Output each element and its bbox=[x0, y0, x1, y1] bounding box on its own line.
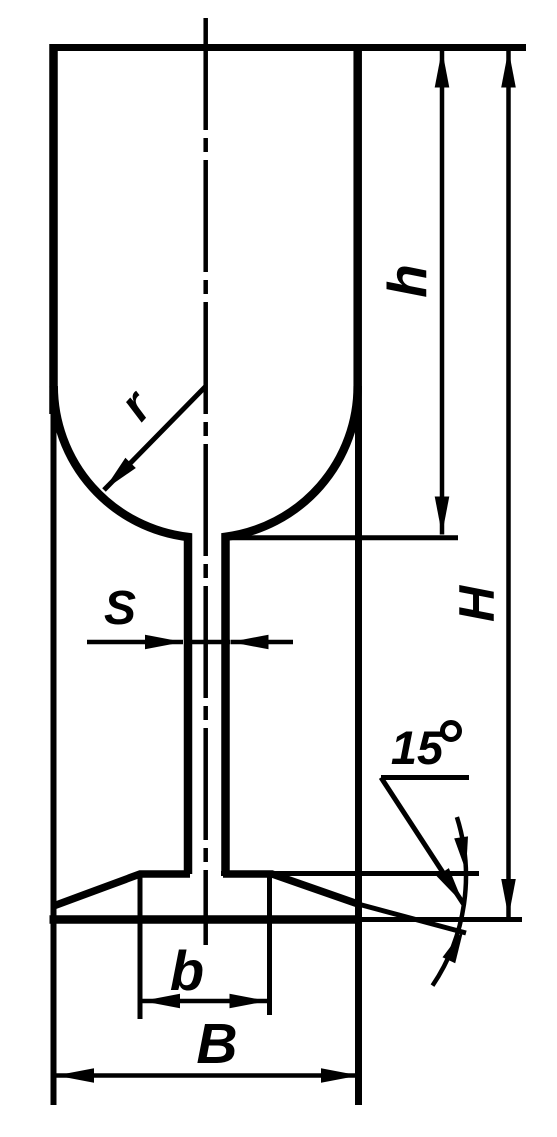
svg-text:15: 15 bbox=[391, 721, 444, 774]
leader from 15deg label with arrow bbox=[381, 778, 464, 905]
svg-text:B: B bbox=[196, 1012, 237, 1076]
degree circle of 15deg label bbox=[443, 723, 460, 740]
right extension line (B) below bowl bbox=[355, 410, 362, 1105]
foot bottom line (thick across foot) bbox=[50, 915, 363, 924]
bottom extension line to the right (for H and 15) bbox=[362, 917, 522, 922]
dimension b line with arrows bbox=[142, 999, 268, 1004]
b left extension line bbox=[138, 876, 143, 1019]
arc upper arrow (onto horizontal line) bbox=[454, 836, 468, 871]
svg-text:b: b bbox=[170, 939, 204, 1002]
dimension S line across stem bbox=[184, 640, 230, 645]
dimension B line with arrows bbox=[56, 1073, 359, 1078]
horizontal extension of foot hub plane (for 15deg angle) bbox=[221, 871, 479, 876]
svg-text:h: h bbox=[376, 264, 438, 298]
dimension S left line with arrow bbox=[87, 640, 183, 645]
bowl right arc into stem right edge bbox=[226, 386, 358, 874]
bowl left arc into stem left edge bbox=[54, 386, 188, 874]
dimension h line with arrows bbox=[440, 50, 445, 535]
svg-text:H: H bbox=[449, 585, 505, 622]
angular dimension arc bbox=[433, 817, 466, 986]
dimension S right line with arrow bbox=[231, 640, 294, 645]
foot hub right + right foot slope bbox=[223, 874, 358, 904]
dimension H line with arrows bbox=[506, 50, 511, 918]
centerline (vertical dash-dot axis) bbox=[203, 18, 208, 945]
foot hub left + left foot slope bbox=[54, 874, 191, 906]
underline bar of 15deg label bbox=[381, 775, 469, 780]
left bowl wall bbox=[49, 44, 58, 414]
arc lower arrow (onto slope line) bbox=[443, 930, 464, 964]
top rim line (extends right as extension line for h and H) bbox=[50, 44, 527, 51]
b right extension line bbox=[267, 874, 272, 1015]
extension of right foot slope (for 15deg angle) bbox=[358, 904, 466, 933]
svg-text:S: S bbox=[104, 582, 136, 635]
bowl-bottom extension line (for h) bbox=[225, 535, 458, 540]
left extension line (B) below bowl bbox=[51, 410, 57, 1105]
right bowl wall bbox=[353, 44, 362, 414]
radius r leader with arrow bbox=[104, 387, 206, 491]
